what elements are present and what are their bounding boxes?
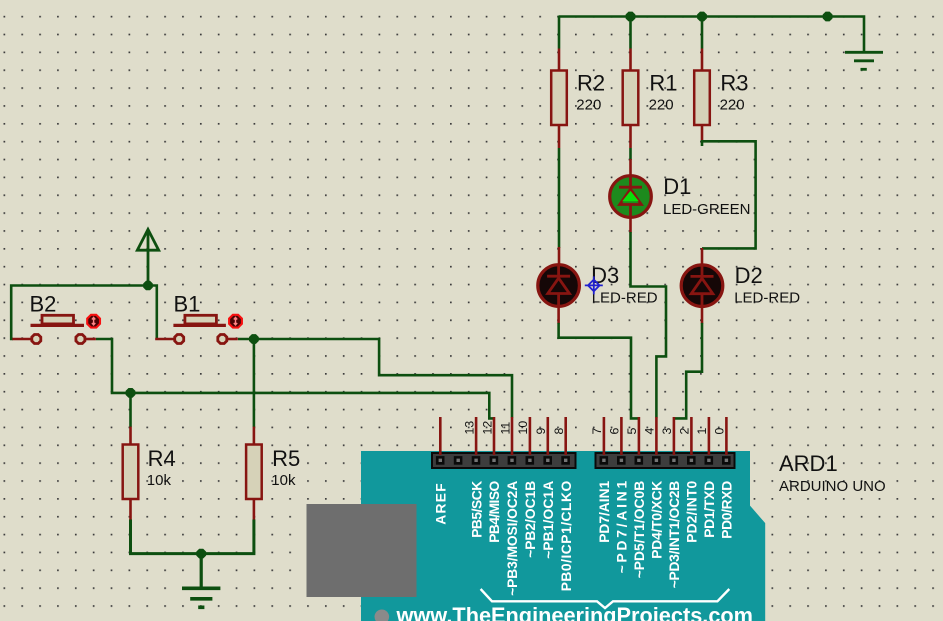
svg-text:3: 3 [660,428,674,435]
svg-text:PB5/SCK: PB5/SCK [469,481,484,538]
svg-text:1: 1 [695,428,709,435]
svg-text:PB4/MISO: PB4/MISO [487,481,502,543]
svg-text:7: 7 [590,428,604,435]
svg-text:~PB2/OC1B: ~PB2/OC1B [523,481,538,558]
svg-text:PD1/TXD: PD1/TXD [702,481,717,538]
svg-text:~PD7/AIN1: ~PD7/AIN1 [615,480,630,573]
svg-text:ARDUINO UNO: ARDUINO UNO [779,478,886,495]
svg-text:6: 6 [608,428,622,435]
svg-text:~PD3/INT1/OC2B: ~PD3/INT1/OC2B [667,481,682,589]
svg-text:11: 11 [498,422,512,435]
svg-text:12: 12 [480,421,494,435]
svg-text:D1: D1 [663,174,691,199]
svg-text:R5: R5 [272,446,300,471]
svg-text:220: 220 [649,96,674,113]
svg-text:PD7/AIN1: PD7/AIN1 [597,480,612,542]
svg-text:R1: R1 [649,70,677,95]
svg-text:5: 5 [625,428,639,435]
svg-text:R4: R4 [148,446,176,471]
svg-text:10k: 10k [147,472,172,489]
svg-text:B2: B2 [30,292,57,317]
svg-text:PB0/ICP1/CLKO: PB0/ICP1/CLKO [559,481,574,592]
svg-text:13: 13 [462,421,476,435]
svg-text:9: 9 [534,428,548,435]
svg-text:220: 220 [720,96,745,113]
svg-text:4: 4 [643,428,657,435]
svg-text:D3: D3 [591,263,619,288]
svg-text:8: 8 [552,428,566,435]
svg-text:ARD1: ARD1 [779,451,838,476]
svg-text:LED-GREEN: LED-GREEN [663,201,751,218]
svg-text:220: 220 [576,96,601,113]
svg-text:PD2/INT0: PD2/INT0 [685,480,700,542]
svg-text:2: 2 [678,428,692,435]
svg-text:D2: D2 [735,263,763,288]
svg-text:0: 0 [713,428,727,435]
svg-text:LED-RED: LED-RED [734,290,800,307]
svg-text:AREF: AREF [434,483,449,525]
svg-text:~PB3/MOSI/OC2A: ~PB3/MOSI/OC2A [505,481,520,596]
svg-text:B1: B1 [174,292,201,317]
svg-text:~PB1/OC1A: ~PB1/OC1A [541,481,556,559]
svg-text:R2: R2 [577,70,605,95]
svg-text:~PD5/T1/OC0B: ~PD5/T1/OC0B [632,481,647,579]
svg-text:R3: R3 [720,70,748,95]
svg-text:www.TheEngineeringProjects.com: www.TheEngineeringProjects.com [396,603,753,621]
svg-text:LED-RED: LED-RED [592,290,658,307]
svg-text:PD0/RXD: PD0/RXD [720,481,735,539]
svg-text:10: 10 [516,421,530,435]
svg-text:10k: 10k [271,472,296,489]
svg-text:PD4/T0/XCK: PD4/T0/XCK [650,481,665,559]
